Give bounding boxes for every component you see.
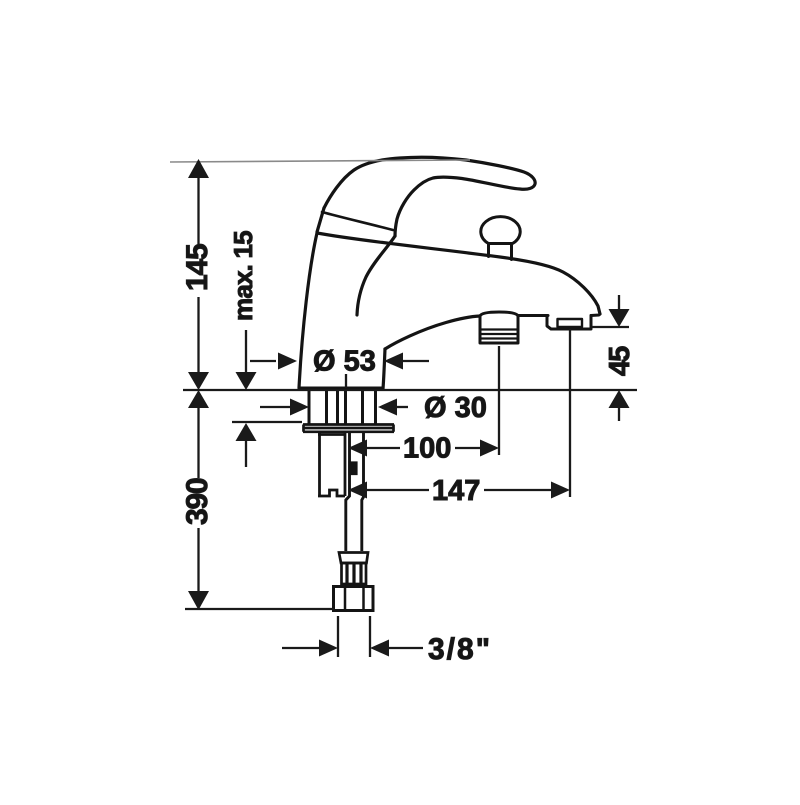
100 right line [455,447,482,449]
threaded rod left edge [346,433,350,551]
top reference line at handle level [170,160,470,162]
3/8 extension line left [337,616,339,657]
bowtie arrow at deck level [188,372,209,408]
dia53 right line [403,360,429,362]
shower outlet centerline [569,329,571,497]
aerator centerline [498,346,500,455]
svg-text:100: 100 [403,433,451,465]
45 down arrow [609,309,630,327]
svg-text:3/8": 3/8" [428,633,492,666]
390 bottom arrow [188,591,209,610]
faucet body left edge [299,233,317,388]
dia30 right arrow [378,399,397,416]
100 left arrow [348,440,367,457]
aerator ribs [480,330,518,339]
hex nut [334,587,374,611]
faucet base right edge [383,349,385,389]
mounting flange (escutcheon) [303,425,394,432]
faucet centerline stub [345,374,347,388]
svg-text:390: 390 [181,478,214,525]
mounting bracket left [318,433,346,496]
shank vertical lines under body [309,388,376,424]
bottom reference line [185,608,334,610]
147 left line [367,489,429,491]
145 dimension line upper [197,178,199,478]
svg-text:Ø 30: Ø 30 [424,392,487,424]
145 top arrow [188,159,209,178]
faucet body waist curve [357,236,395,315]
3/8 right line [387,647,423,649]
147 right line [484,489,553,491]
max.15 down arrow [236,372,257,390]
svg-text:Ø 53: Ø 53 [313,346,376,378]
diverter knob stem [489,244,512,260]
spout underside curve [385,316,480,349]
shower hose outlet outer [547,316,591,330]
dia30 left line [260,406,291,408]
45 up arrow [609,390,630,408]
max.15 dimension line [245,330,247,373]
supply hose connector ribbed section [342,563,367,584]
faucet handle front edge [317,208,324,232]
45 upper stub [618,295,620,310]
faucet handle cap seam [322,212,393,230]
deck max thickness tick [232,421,302,423]
3/8 left line [282,647,321,649]
faucet base bottom edge [299,387,383,390]
supply hose connector top [339,553,368,564]
45 lower stub [618,408,620,421]
3/8 extension line right [369,616,371,657]
dia30 left arrow [290,399,309,416]
mounting bracket bottom notch [318,490,345,496]
svg-text:max. 15: max. 15 [228,231,258,321]
390 dimension line lower [197,528,199,592]
100 right arrow [480,440,499,457]
threaded rod right edge [362,433,364,551]
spout underside segment at tip [518,314,548,317]
147 left arrow [348,482,367,499]
svg-text:147: 147 [432,475,480,507]
dia53 left arrow [278,353,297,370]
3/8 left arrow [319,640,338,657]
100 left line [367,447,400,449]
svg-text:145: 145 [181,244,214,291]
dia53 left line [250,360,276,362]
connector rib lines [347,564,361,583]
faucet body top edge and spout top [317,233,600,314]
shower hose outlet inner [558,319,583,327]
max.15 lower stub [245,441,247,467]
deck reference line [183,389,637,391]
rod step detail [350,463,357,475]
3/8 right arrow [370,640,389,657]
147 right arrow [551,482,570,499]
dia30 leader line [393,406,408,408]
spout tip right edge [591,314,600,316]
diverter knob [481,217,520,244]
svg-text:45: 45 [604,346,636,376]
spout aerator block [480,312,518,343]
max.15 up arrow [236,423,257,441]
dia53 right arrow [384,353,403,370]
45 top tick line [592,326,629,328]
hex nut facet lines [345,587,364,611]
faucet lever handle outer curve [324,157,535,236]
